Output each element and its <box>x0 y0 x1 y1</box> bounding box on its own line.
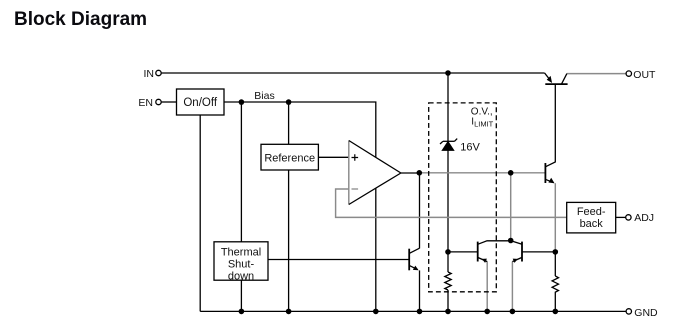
svg-text:ADJ: ADJ <box>634 212 654 224</box>
terminal IN <box>144 68 162 80</box>
transistor P2 (PNP, right of mirror) <box>511 241 555 262</box>
svg-text:Bias: Bias <box>254 90 274 102</box>
transistor Q1 (NPN, thermal shutdown driver) <box>409 248 419 311</box>
svg-text:GND: GND <box>634 307 658 319</box>
node bias dot 2 <box>286 99 292 105</box>
terminal ADJ <box>626 212 654 224</box>
node output rail / mirror junction <box>508 170 514 176</box>
box Feed-back <box>567 202 616 233</box>
transistor Q2 (NPN, driver) <box>545 84 555 183</box>
terminal GND <box>626 307 658 319</box>
wire Q1 collector vertical <box>419 173 421 249</box>
node op-amp output junction <box>417 170 423 176</box>
wire bias drop through Thermal Shutdown <box>240 102 242 311</box>
svg-text:ILIMIT: ILIMIT <box>471 116 493 128</box>
node bias dot 1 <box>239 99 245 105</box>
transistor P1 (PNP, left of mirror) <box>478 241 511 262</box>
zener diode D1 16V <box>440 139 457 151</box>
resistor R2 <box>554 252 556 312</box>
svg-text:Reference: Reference <box>264 153 315 165</box>
dashed box O.V. I LIMIT <box>429 103 497 292</box>
svg-text:Thermal: Thermal <box>221 246 261 258</box>
svg-text:Shut-: Shut- <box>228 258 255 270</box>
wire Bias rail from On/Off to corner then down to ground rail <box>224 102 376 311</box>
wire ground rail <box>200 310 626 312</box>
svg-text:IN: IN <box>144 68 155 80</box>
box Thermal Shutdown <box>214 242 268 282</box>
terminal EN <box>138 97 161 109</box>
wire Q2 emitter down to mirror node (gray) <box>554 183 556 252</box>
wire Feed-back to ADJ terminal <box>616 216 626 218</box>
svg-text:Feed-: Feed- <box>577 206 606 218</box>
svg-text:down: down <box>228 270 254 282</box>
wire gray vertical from output rail to mirror collectors <box>510 173 512 241</box>
svg-text:back: back <box>580 218 604 230</box>
wire op-amp output rail (gray) to Q2 base <box>419 172 545 174</box>
box Reference <box>261 144 318 170</box>
op-amp U1 <box>349 141 401 205</box>
wire zener branch from IN dot down <box>447 73 449 141</box>
resistor R1 <box>445 272 451 290</box>
svg-text:OUT: OUT <box>633 69 656 81</box>
terminal OUT <box>626 69 656 81</box>
box On/Off <box>177 89 225 115</box>
node mirror collectors junction <box>508 238 514 244</box>
wire op-amp output to junction <box>401 172 419 174</box>
wire EN lead <box>161 101 176 103</box>
wire zener node to current-mirror base <box>448 251 478 253</box>
node zener/resistor junction <box>445 249 451 255</box>
svg-text:16V: 16V <box>460 142 480 154</box>
wire On/Off bottom to ground rail corner <box>199 115 201 311</box>
node ground rail dots <box>239 309 245 315</box>
wire P2 emitter vertical (gray) <box>511 262 513 312</box>
node Q2 emitter / P2 base junction <box>553 249 559 255</box>
transistor Q3 (PNP pass transistor) <box>545 73 568 84</box>
svg-text:On/Off: On/Off <box>183 97 217 109</box>
resistor R1 lower lead <box>447 290 449 311</box>
wire pass transistor collector to OUT (gray) <box>567 73 626 75</box>
wire IN rail <box>161 72 544 74</box>
wire Reference output to op-amp + input <box>318 156 348 158</box>
wire feedback path from Feed-back box to op-amp - input (gray) <box>336 189 567 217</box>
wire P1 emitter vertical (gray) <box>486 262 488 312</box>
svg-text:EN: EN <box>138 97 153 109</box>
node IN/zener junction <box>445 70 451 76</box>
wire bias drop through Reference <box>288 102 290 311</box>
wire Thermal Shutdown output to Q1 base <box>268 259 410 261</box>
